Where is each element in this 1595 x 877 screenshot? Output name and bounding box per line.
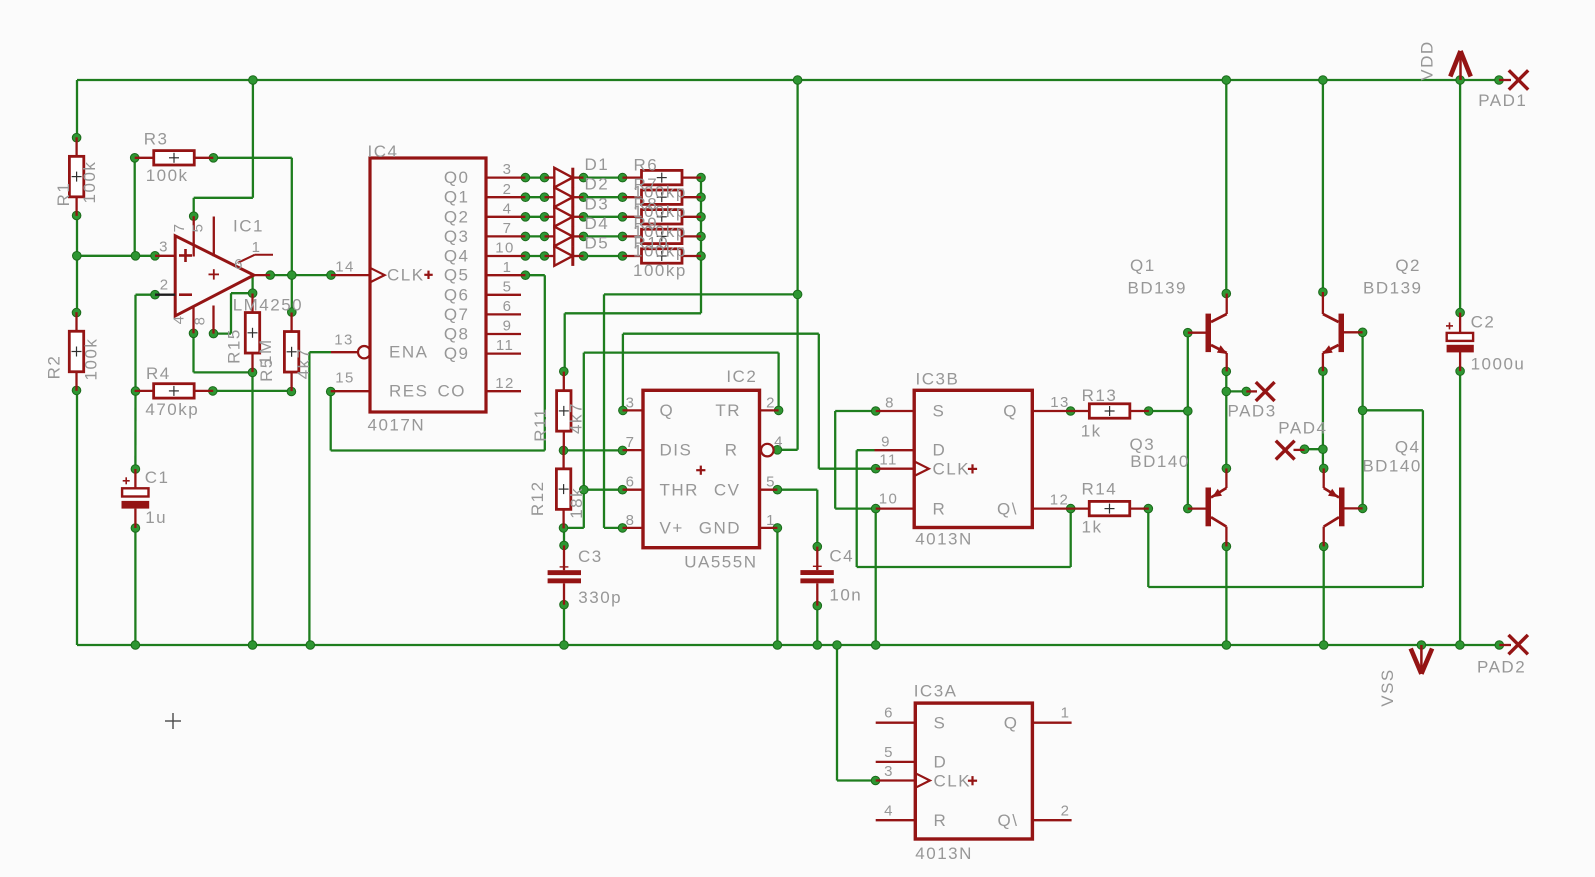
svg-text:Q3: Q3 xyxy=(444,227,470,246)
svg-text:D3: D3 xyxy=(585,194,610,213)
svg-text:Q\: Q\ xyxy=(997,500,1018,519)
svg-text:5: 5 xyxy=(766,474,776,491)
svg-text:3: 3 xyxy=(503,161,513,178)
svg-text:R13: R13 xyxy=(1082,386,1118,405)
svg-text:1k: 1k xyxy=(1081,422,1102,441)
svg-text:BD140: BD140 xyxy=(1362,456,1421,475)
svg-text:CV: CV xyxy=(714,480,741,499)
svg-text:100k: 100k xyxy=(146,166,189,185)
svg-text:Q7: Q7 xyxy=(444,305,470,324)
svg-text:Q: Q xyxy=(1004,714,1019,733)
svg-text:Q: Q xyxy=(660,401,675,420)
svg-text:Q3: Q3 xyxy=(1130,435,1156,454)
svg-text:11: 11 xyxy=(496,337,514,354)
svg-text:R2: R2 xyxy=(45,355,64,380)
svg-text:PAD1: PAD1 xyxy=(1478,91,1527,110)
svg-text:C4: C4 xyxy=(829,547,854,566)
svg-text:Q6: Q6 xyxy=(444,285,470,304)
svg-text:V+: V+ xyxy=(660,519,684,538)
svg-text:C2: C2 xyxy=(1471,313,1496,332)
svg-text:100k: 100k xyxy=(80,161,99,204)
svg-text:18k: 18k xyxy=(567,487,586,519)
svg-text:BD139: BD139 xyxy=(1128,279,1187,298)
svg-text:R10: R10 xyxy=(634,234,670,253)
svg-text:Q1: Q1 xyxy=(1130,256,1156,275)
svg-text:470kp: 470kp xyxy=(145,400,199,419)
svg-text:R14: R14 xyxy=(1082,480,1118,499)
svg-text:12: 12 xyxy=(495,375,515,392)
svg-text:1: 1 xyxy=(503,259,513,276)
svg-text:12: 12 xyxy=(1050,492,1070,509)
svg-text:IC4: IC4 xyxy=(368,142,399,161)
svg-text:13: 13 xyxy=(1050,394,1070,411)
svg-text:R5: R5 xyxy=(257,357,276,382)
svg-text:10: 10 xyxy=(879,490,899,507)
svg-text:R11: R11 xyxy=(531,407,550,441)
svg-text:4: 4 xyxy=(774,434,784,451)
svg-text:C1: C1 xyxy=(145,468,170,487)
svg-text:4013N: 4013N xyxy=(915,844,973,863)
svg-text:2: 2 xyxy=(160,277,170,294)
svg-text:R6: R6 xyxy=(634,155,659,174)
svg-text:4: 4 xyxy=(171,315,188,325)
svg-text:LM4250: LM4250 xyxy=(233,296,303,315)
svg-text:1k: 1k xyxy=(1082,518,1103,537)
svg-text:2: 2 xyxy=(1061,803,1071,820)
svg-text:Q0: Q0 xyxy=(444,168,470,187)
svg-text:4: 4 xyxy=(884,803,894,820)
svg-text:Q: Q xyxy=(1003,402,1018,421)
svg-text:6: 6 xyxy=(234,256,244,273)
svg-text:13: 13 xyxy=(334,332,354,349)
svg-text:D1: D1 xyxy=(585,155,610,174)
svg-text:330p: 330p xyxy=(578,588,622,607)
svg-text:8: 8 xyxy=(192,316,209,326)
svg-text:3: 3 xyxy=(884,763,894,780)
svg-text:1: 1 xyxy=(766,512,776,529)
svg-text:CLK: CLK xyxy=(934,771,972,790)
svg-text:Q2: Q2 xyxy=(1395,256,1421,275)
svg-text:DIS: DIS xyxy=(660,441,693,460)
svg-text:PAD2: PAD2 xyxy=(1477,658,1526,677)
svg-text:7: 7 xyxy=(171,223,188,233)
svg-text:14: 14 xyxy=(335,259,355,276)
svg-text:C3: C3 xyxy=(578,547,603,566)
svg-text:ENA: ENA xyxy=(389,343,428,362)
svg-text:2: 2 xyxy=(503,181,513,198)
svg-text:9: 9 xyxy=(503,318,513,335)
svg-text:4k7: 4k7 xyxy=(567,402,586,434)
svg-text:THR: THR xyxy=(660,480,699,499)
svg-text:Q8: Q8 xyxy=(444,325,470,344)
svg-text:R3: R3 xyxy=(144,130,169,149)
svg-text:CLK: CLK xyxy=(387,266,425,285)
svg-text:CLK: CLK xyxy=(933,459,971,478)
svg-text:7: 7 xyxy=(503,220,513,237)
svg-text:R4: R4 xyxy=(146,364,171,383)
svg-text:IC2: IC2 xyxy=(726,367,757,386)
svg-text:10n: 10n xyxy=(829,586,862,605)
svg-text:100kp: 100kp xyxy=(633,261,687,280)
svg-text:R7: R7 xyxy=(634,175,659,194)
svg-text:D5: D5 xyxy=(585,234,610,253)
svg-text:TR: TR xyxy=(715,401,741,420)
svg-text:3: 3 xyxy=(626,395,636,412)
svg-text:Q4: Q4 xyxy=(1395,437,1421,456)
svg-text:GND: GND xyxy=(699,519,741,538)
svg-text:CO: CO xyxy=(438,382,467,401)
svg-text:UA555N: UA555N xyxy=(684,553,757,572)
svg-text:1: 1 xyxy=(252,239,262,256)
svg-text:D: D xyxy=(934,753,948,772)
svg-text:Q2: Q2 xyxy=(444,207,470,226)
svg-text:R1: R1 xyxy=(54,182,73,207)
svg-text:6: 6 xyxy=(626,474,636,491)
svg-text:R12: R12 xyxy=(528,480,547,516)
svg-text:R: R xyxy=(725,440,739,459)
svg-text:1u: 1u xyxy=(145,508,167,527)
svg-text:10: 10 xyxy=(495,240,515,257)
svg-text:5: 5 xyxy=(503,278,513,295)
svg-text:Q9: Q9 xyxy=(444,344,470,363)
svg-text:PAD3: PAD3 xyxy=(1228,402,1277,421)
svg-text:R: R xyxy=(934,811,948,830)
svg-text:11: 11 xyxy=(879,452,897,469)
svg-text:5: 5 xyxy=(190,223,207,233)
svg-text:9: 9 xyxy=(881,434,891,451)
svg-text:15: 15 xyxy=(335,370,355,387)
svg-text:3: 3 xyxy=(159,239,169,256)
svg-text:IC3B: IC3B xyxy=(916,369,960,388)
svg-text:R8: R8 xyxy=(634,195,659,214)
svg-text:S: S xyxy=(933,402,946,421)
svg-text:R9: R9 xyxy=(634,214,659,233)
svg-text:5: 5 xyxy=(884,744,894,761)
svg-text:6: 6 xyxy=(503,298,513,315)
svg-text:VDD: VDD xyxy=(1417,40,1436,80)
svg-text:BD139: BD139 xyxy=(1363,279,1422,298)
svg-text:4013N: 4013N xyxy=(915,530,973,549)
svg-text:PAD4: PAD4 xyxy=(1278,419,1327,438)
svg-text:S: S xyxy=(934,714,947,733)
svg-text:8: 8 xyxy=(885,395,895,412)
svg-text:Q4: Q4 xyxy=(444,247,470,266)
svg-text:R: R xyxy=(933,500,947,519)
svg-text:D2: D2 xyxy=(585,175,610,194)
svg-text:4017N: 4017N xyxy=(368,416,426,435)
svg-text:4: 4 xyxy=(503,200,513,217)
svg-text:100k: 100k xyxy=(82,338,101,381)
svg-text:4k7: 4k7 xyxy=(294,347,313,379)
svg-text:RES: RES xyxy=(389,382,428,401)
svg-text:1: 1 xyxy=(1061,705,1071,722)
svg-text:Q5: Q5 xyxy=(444,266,470,285)
svg-text:2: 2 xyxy=(766,395,776,412)
svg-text:6: 6 xyxy=(884,705,894,722)
svg-text:1000u: 1000u xyxy=(1471,355,1526,374)
svg-text:IC1: IC1 xyxy=(233,217,264,236)
svg-text:D: D xyxy=(933,441,947,460)
svg-text:R15: R15 xyxy=(225,328,244,364)
svg-text:Q\: Q\ xyxy=(998,811,1019,830)
svg-text:8: 8 xyxy=(626,512,636,529)
svg-text:D4: D4 xyxy=(585,214,610,233)
svg-text:7: 7 xyxy=(626,434,636,451)
svg-text:BD140: BD140 xyxy=(1130,452,1189,471)
svg-text:IC3A: IC3A xyxy=(914,682,958,701)
svg-text:Q1: Q1 xyxy=(444,188,470,207)
svg-text:VSS: VSS xyxy=(1378,668,1397,707)
